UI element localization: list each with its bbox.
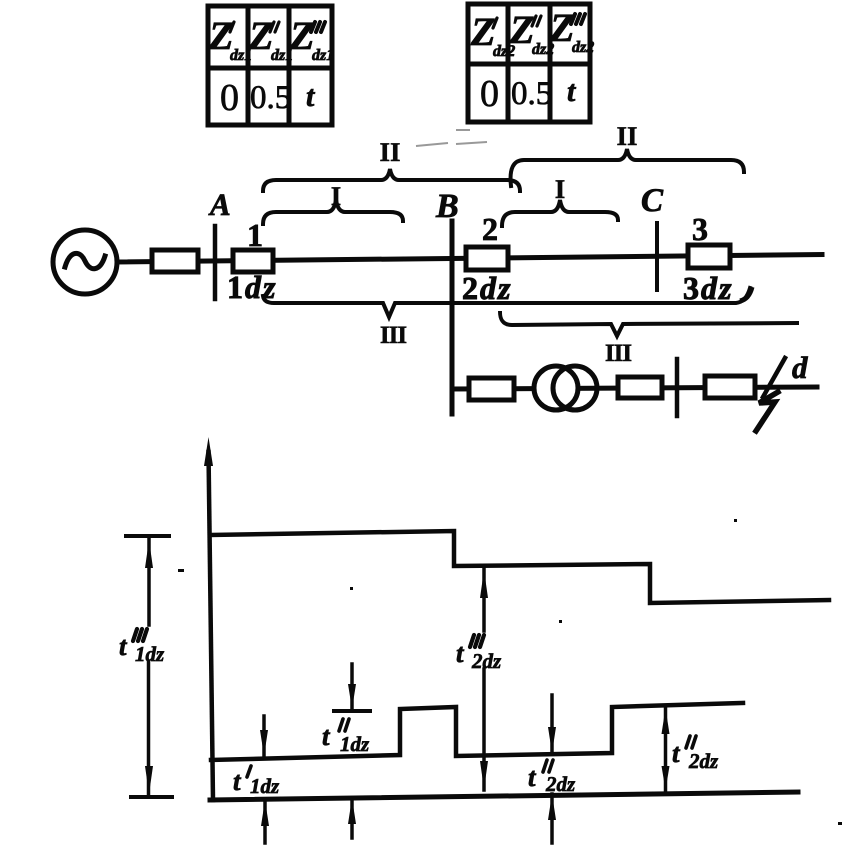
- svg-text:0.5: 0.5: [511, 76, 552, 112]
- svg-text:A: A: [208, 187, 231, 222]
- svg-text:1dz: 1dz: [250, 774, 280, 798]
- svg-text:1: 1: [247, 217, 263, 253]
- svg-text:1dz: 1dz: [227, 269, 277, 305]
- svg-text:0: 0: [220, 77, 239, 119]
- svg-text:C: C: [641, 183, 664, 219]
- svg-text:Z: Z: [549, 5, 574, 50]
- svg-text:2dz: 2dz: [545, 772, 576, 796]
- svg-text:2dz: 2dz: [471, 649, 502, 673]
- svg-text:dz1: dz1: [312, 47, 334, 64]
- svg-text:Z: Z: [289, 13, 314, 58]
- svg-text:d: d: [792, 350, 808, 385]
- svg-text:1dz: 1dz: [340, 732, 370, 756]
- svg-text:I: I: [555, 174, 566, 204]
- svg-text:2dz: 2dz: [688, 749, 719, 773]
- svg-text:2: 2: [482, 211, 498, 247]
- svg-text:3: 3: [692, 211, 708, 247]
- svg-text:dz2: dz2: [572, 39, 594, 56]
- svg-text:Z: Z: [248, 13, 273, 58]
- svg-text:III: III: [605, 340, 631, 367]
- svg-text:0.5: 0.5: [250, 80, 291, 116]
- svg-text:1dz: 1dz: [135, 642, 165, 666]
- svg-text:2dz: 2dz: [462, 270, 512, 306]
- svg-text:B: B: [435, 188, 459, 225]
- svg-text:3dz: 3dz: [683, 270, 733, 306]
- svg-text:II: II: [379, 137, 400, 167]
- svg-text:0: 0: [480, 73, 499, 115]
- svg-text:I: I: [331, 181, 342, 211]
- svg-text:Z: Z: [509, 7, 534, 52]
- svg-text:II: II: [616, 121, 637, 151]
- svg-text:III: III: [380, 322, 406, 349]
- svg-text:Z: Z: [470, 9, 495, 54]
